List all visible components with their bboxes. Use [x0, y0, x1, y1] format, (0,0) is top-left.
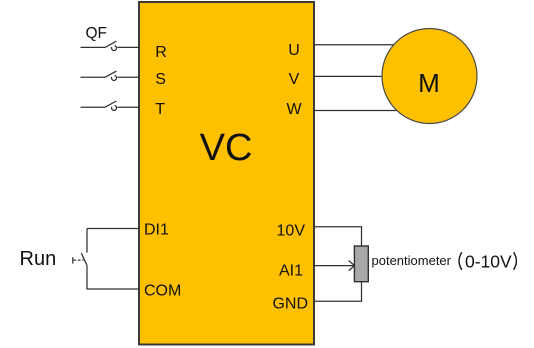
- svg-text:GND: GND: [272, 295, 308, 312]
- breaker QF pole 1 blade: [105, 41, 116, 47]
- wire 10V to potentiometer top: [314, 227, 362, 247]
- wire S left: [81, 76, 106, 78]
- breaker QF pole 2 blade: [105, 71, 116, 77]
- wire W to motor: [314, 110, 401, 112]
- wire AI1 to potentiometer wiper: [314, 265, 354, 267]
- switch Run actuator dashed link: [74, 259, 84, 261]
- inverter block VC: [139, 2, 314, 345]
- wiper arrowhead: [349, 261, 355, 271]
- breaker QF pole 3 contact hook: [112, 105, 117, 110]
- wire U to motor: [314, 44, 401, 46]
- breaker QF pole 1 contact hook: [112, 46, 117, 51]
- svg-text:V: V: [289, 71, 300, 88]
- svg-text:DI1: DI1: [144, 222, 169, 239]
- svg-text:W: W: [286, 101, 302, 118]
- svg-text:10V: 10V: [277, 223, 306, 240]
- motor M: [382, 29, 477, 124]
- wire V to motor: [314, 75, 401, 77]
- breaker QF pole 3 blade: [105, 101, 116, 107]
- switch Run blade: [81, 253, 87, 265]
- wire R left: [81, 46, 106, 48]
- svg-text:Run: Run: [20, 248, 57, 270]
- fullwidth paren close: [514, 252, 517, 269]
- svg-text:0-10V: 0-10V: [465, 251, 512, 271]
- wire T left: [81, 106, 106, 108]
- svg-text:U: U: [288, 42, 300, 59]
- svg-text:T: T: [155, 101, 165, 118]
- svg-text:QF: QF: [86, 25, 108, 42]
- wire GND to potentiometer bottom: [314, 282, 362, 302]
- potentiometer body: [354, 246, 368, 282]
- breaker QF pole 2 contact hook: [112, 76, 117, 81]
- svg-text:COM: COM: [144, 283, 181, 300]
- svg-text:VC: VC: [200, 127, 253, 169]
- wire T right: [117, 106, 140, 108]
- wire R right: [117, 46, 140, 48]
- wire DI1: [87, 229, 140, 253]
- svg-text:S: S: [155, 71, 166, 88]
- switch Run actuator tick: [72, 257, 74, 263]
- svg-text:M: M: [418, 68, 440, 98]
- svg-text:AI1: AI1: [279, 263, 303, 280]
- svg-text:R: R: [155, 44, 167, 61]
- svg-text:potentiometer: potentiometer: [372, 253, 452, 268]
- fullwidth paren open: [459, 252, 462, 269]
- wire COM: [87, 266, 140, 290]
- wire S right: [117, 76, 140, 78]
